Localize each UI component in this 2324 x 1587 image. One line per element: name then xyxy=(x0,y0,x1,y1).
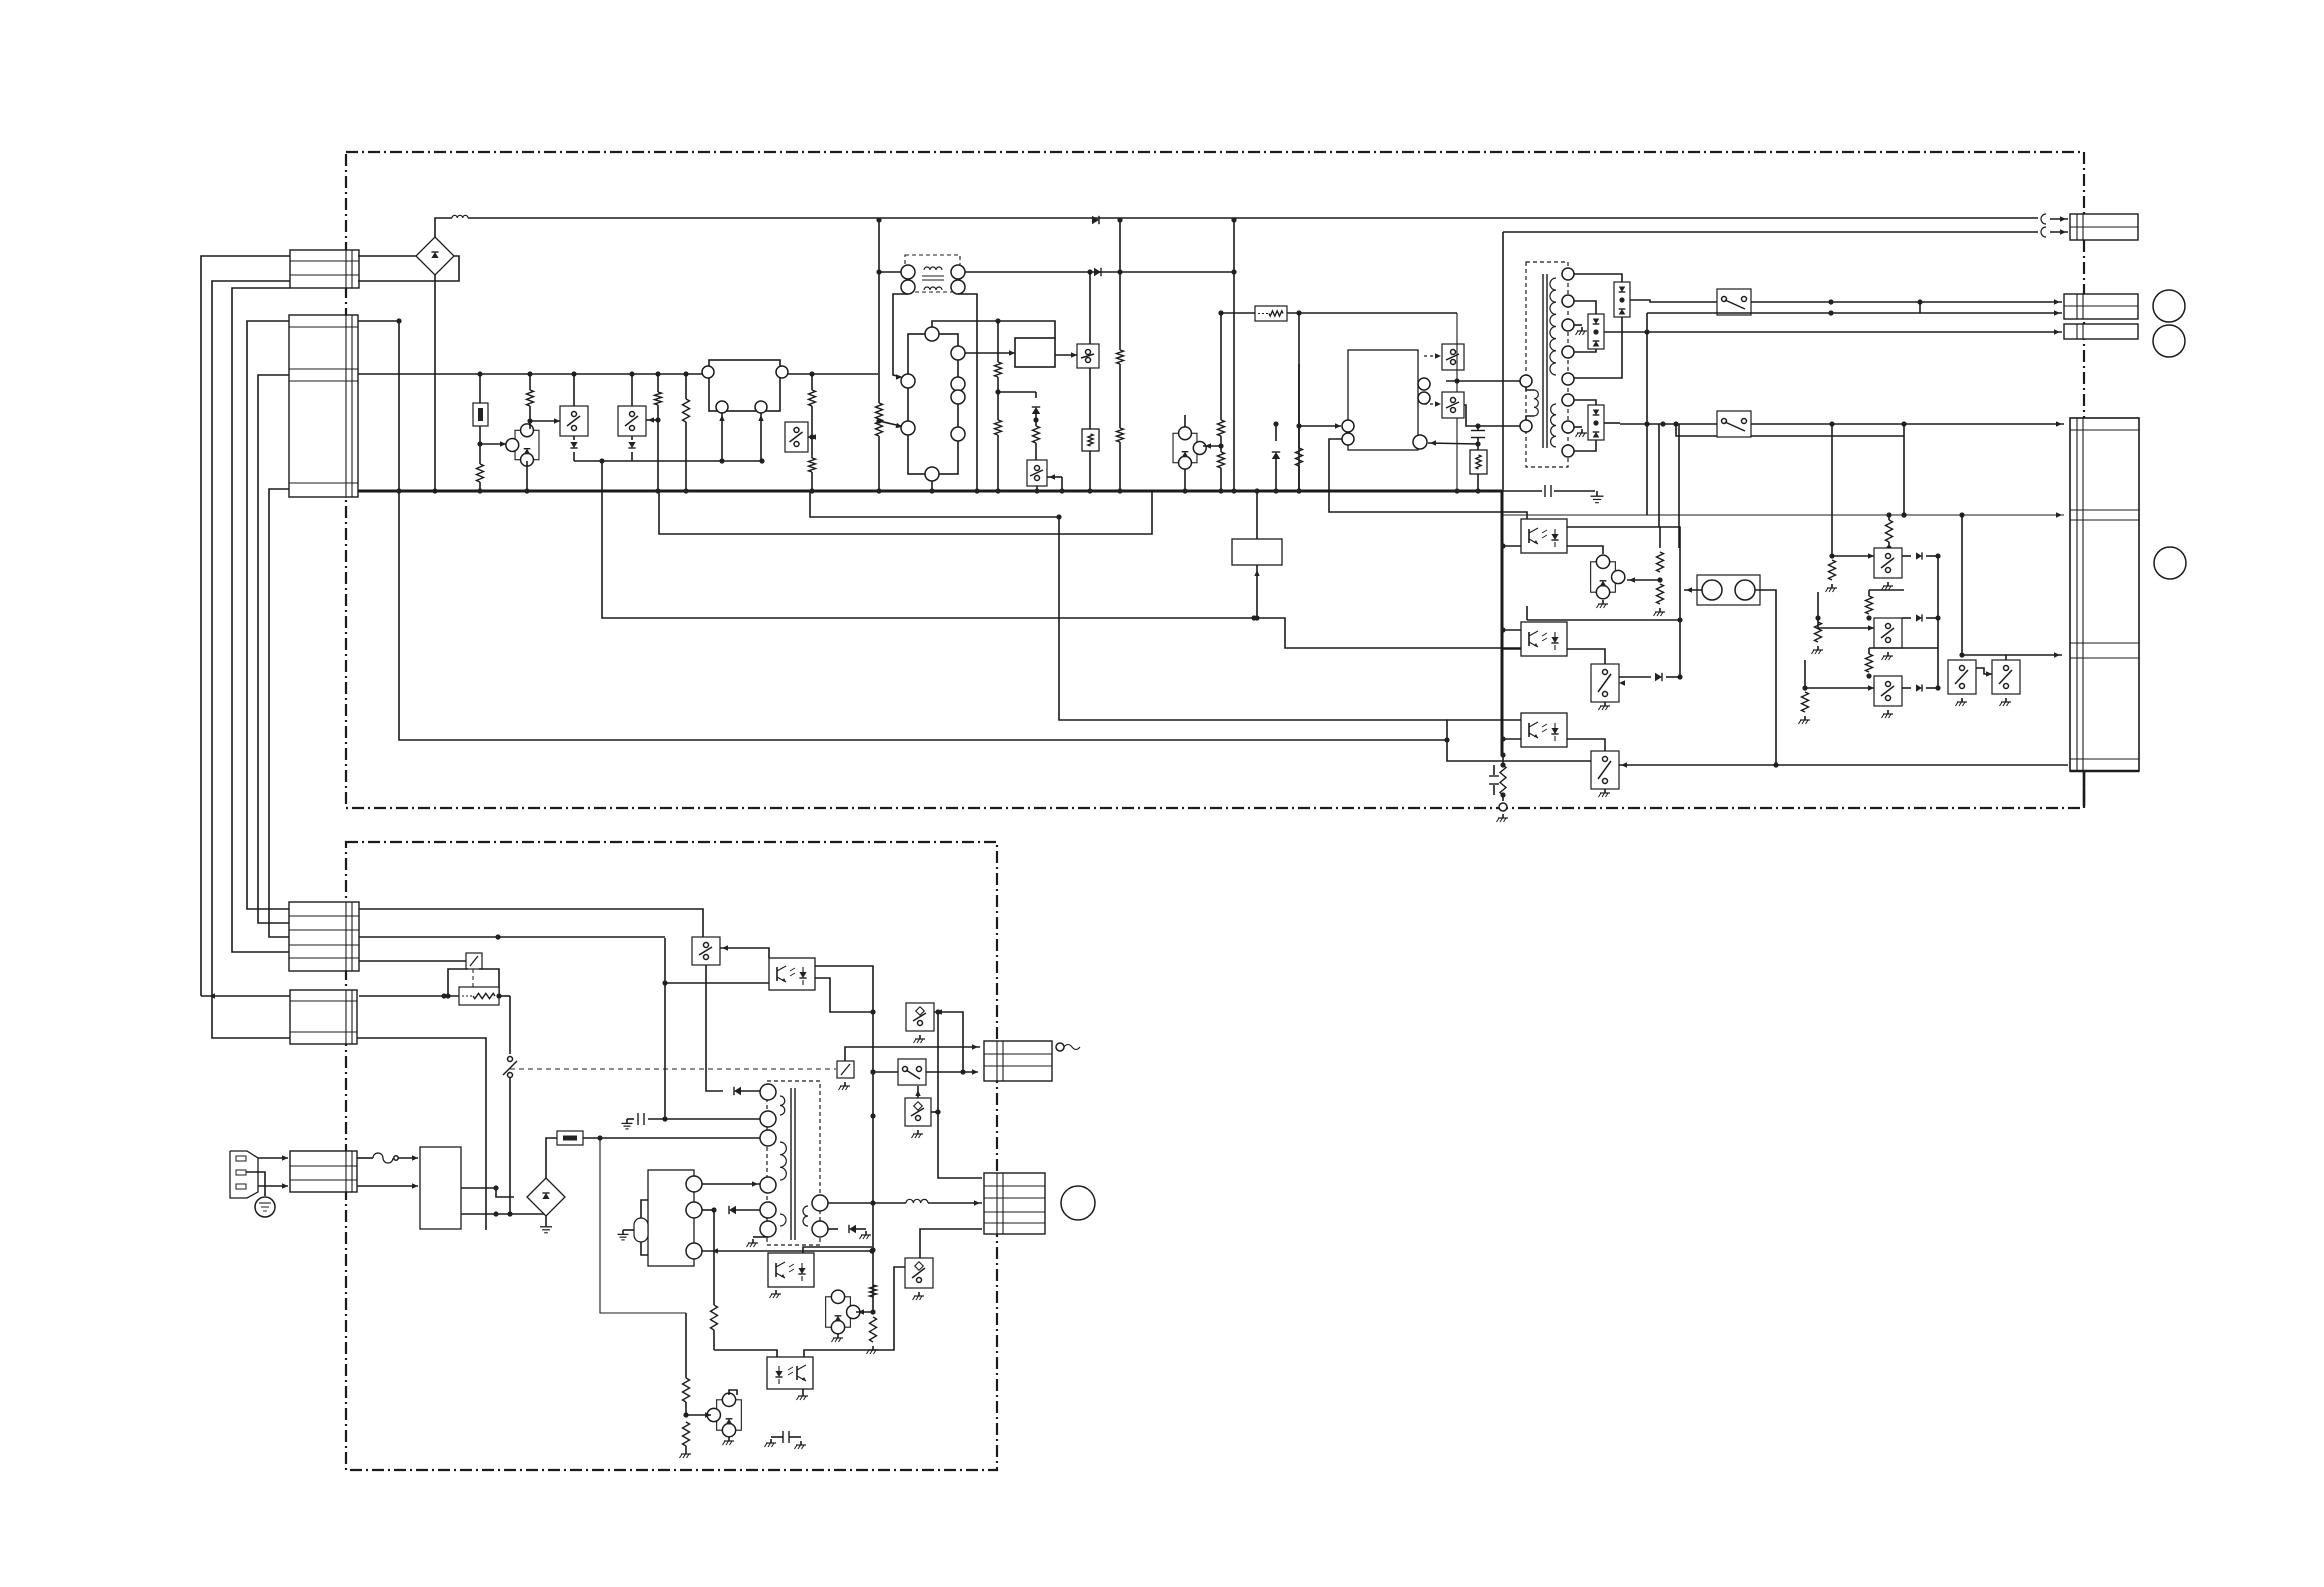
shunt regulator U_Z5 xyxy=(707,1393,741,1437)
T2 primary windings xyxy=(780,1096,786,1226)
connector CN_G2 xyxy=(984,1173,1045,1234)
wire PC5 right up xyxy=(804,1267,905,1357)
switch S4 xyxy=(905,1258,933,1288)
IC U1 pin circles xyxy=(702,366,788,413)
resistor chain R4 xyxy=(1567,527,1665,616)
arrow into Q3b xyxy=(1047,474,1065,493)
T1 primary pins xyxy=(1520,375,1532,432)
wire D5a out to switch Q5 xyxy=(1630,300,1717,302)
switch Q4a (upper FET) xyxy=(1442,344,1464,370)
IC U2 (PFC controller) xyxy=(908,334,958,474)
wire L4 branch to opto3 xyxy=(1447,719,1521,721)
rail y=374 from connector B xyxy=(358,371,878,376)
wire PC4 right loop xyxy=(815,966,876,1312)
optocoupler PC6 (standby feedback) xyxy=(768,1253,814,1287)
cap C_y xyxy=(765,1431,807,1449)
hook ferrite bead 2 xyxy=(2041,227,2046,237)
diode pack D5a xyxy=(1614,282,1630,317)
choke right bottom riser xyxy=(958,294,980,494)
U4 pill wires xyxy=(641,1200,648,1255)
optocoupler PC5 xyxy=(767,1357,813,1389)
switch S2 xyxy=(898,1059,926,1085)
wire T1 pin6 to D5c xyxy=(1574,400,1596,405)
wire J1 right down xyxy=(1755,590,1776,765)
IC U1 (standby control) xyxy=(709,360,780,411)
ground Q6b xyxy=(1599,789,1611,797)
vertical x=1221 chain xyxy=(1218,310,1225,493)
wire U4 pin3 xyxy=(702,1248,875,1253)
U4 pill cap xyxy=(634,1218,648,1242)
wire T1 pin1 to D5a xyxy=(1574,274,1622,282)
arrow to U_Z5 xyxy=(686,1412,711,1417)
optocoupler PC1 xyxy=(1521,519,1567,553)
optocoupler PC2 xyxy=(1521,622,1567,656)
arrow into Q2 right xyxy=(808,434,816,439)
thick vertical bus x=1502 xyxy=(1501,491,1504,755)
strain relief G1 xyxy=(1056,1043,1080,1051)
vertical x=1962 xyxy=(1959,515,1964,658)
switch Q3 (PFC FET) xyxy=(1077,344,1099,368)
wire y=515 bus xyxy=(1502,512,2064,517)
wire cap to ground xyxy=(1554,490,1595,492)
wire S2 out xyxy=(926,1069,978,1074)
T2 primary pins xyxy=(760,1084,776,1237)
wire cap to T2 pin2 xyxy=(665,1118,761,1120)
wire x1805 to Q7c xyxy=(1805,685,1874,690)
wire bundle left vertical 4 xyxy=(258,375,289,923)
T1 primary winding xyxy=(1534,390,1538,416)
diode D7 xyxy=(734,1087,761,1095)
choke pins xyxy=(901,265,965,294)
wire y=620 opto2 top xyxy=(1527,606,1680,620)
wire PC3 left pins xyxy=(1500,736,1521,741)
diode D6a xyxy=(1902,552,1941,559)
pulse jumper J1 xyxy=(1697,575,1760,605)
vertical x=1832 xyxy=(1826,424,1838,592)
wire FR2 path xyxy=(359,993,459,998)
wire bundle left vertical 2 xyxy=(212,281,290,1038)
wire Q8b up to out xyxy=(2006,652,2062,660)
switch Q8b xyxy=(1992,660,2020,706)
connector CN_D (5 rows) xyxy=(289,902,359,971)
wire PC2 to Q6a xyxy=(1567,649,1605,664)
indicator circle 2 xyxy=(2153,325,2185,357)
wire Q6a diode xyxy=(1619,673,1680,686)
IC U4 (standby controller) xyxy=(648,1170,694,1266)
wire U_Z5 top to PC5 xyxy=(729,1390,737,1395)
switch Q5 xyxy=(1717,289,1751,315)
T1 secondary pins xyxy=(1562,268,1574,457)
switch Q7c xyxy=(1874,676,1902,718)
T2 secondary winding xyxy=(803,1206,808,1226)
connector CN_OUT1 xyxy=(2070,214,2138,240)
fusible resistor FR1 xyxy=(473,374,488,464)
wire L5 to feedback node xyxy=(358,318,1447,740)
ground DB2 xyxy=(540,1216,552,1233)
shunt regulator U_Z1 xyxy=(506,424,539,466)
vertical x=600 down xyxy=(600,1138,686,1313)
driver block U2b xyxy=(1015,338,1055,367)
wire y=313 row xyxy=(1221,310,1457,315)
resistor R2a hang xyxy=(683,374,690,494)
wire PC1 left pins xyxy=(1500,543,1521,548)
choke left top wire xyxy=(879,271,901,273)
arrow S2 to S3 xyxy=(915,1086,920,1098)
relay RL2 dashed to FR2 xyxy=(472,969,474,988)
wire y=765 to CN_BIG xyxy=(1619,762,2068,767)
T1 ground stub pin3 xyxy=(1574,325,1587,335)
wire into S2 xyxy=(870,1069,898,1074)
diode pack D5c xyxy=(1588,405,1604,440)
connector CN_F (3 rows) xyxy=(290,1151,357,1192)
connector CN_E (2 rows) xyxy=(290,990,357,1044)
fusible resistor FR3 xyxy=(557,1131,583,1145)
ground S5 xyxy=(914,1035,926,1043)
wire CN_E row2 down xyxy=(357,1038,486,1230)
snubber chain x=1478 xyxy=(1470,426,1487,494)
connector CN_B (main, 5 bands) xyxy=(289,315,358,497)
wire L1 below bus xyxy=(810,491,1059,517)
wire T1 pin2 to D5b xyxy=(1574,301,1596,314)
switch Q7b xyxy=(1874,618,1902,660)
IC U3 pins xyxy=(1342,378,1430,449)
arrow to shunt reg U_Z1 xyxy=(480,441,506,446)
connector CN_BIG (multi) xyxy=(2070,418,2139,771)
T2 sec low diode xyxy=(828,1225,871,1239)
wire R5a into Q7a xyxy=(1888,542,1890,548)
earth wire xyxy=(246,1172,265,1196)
optocoupler PC3 xyxy=(1521,713,1567,747)
T1 primary connect xyxy=(1526,387,1534,420)
switch S3 xyxy=(905,1098,931,1126)
IC U2 pins xyxy=(901,327,965,481)
cap res combo C_R bottom xyxy=(1489,752,1506,801)
wire PC3 to Q6b xyxy=(1567,739,1605,751)
indicator circle 4 xyxy=(1061,1186,1095,1220)
wire U2 bottom to bus xyxy=(929,481,934,494)
ground U_Z5 xyxy=(723,1437,735,1445)
switch Q1b riser xyxy=(631,374,633,406)
diode D2b on wire 272 xyxy=(1094,268,1101,276)
wire CN_F row3 to filter xyxy=(357,1183,418,1188)
switch S1 xyxy=(692,937,720,965)
connector CN_A (AC relay out, 3 rows) xyxy=(290,250,359,288)
switch Q2 xyxy=(785,422,808,452)
hook ferrite bead 1 xyxy=(2041,214,2046,224)
wire CN_G2 to S4 xyxy=(920,1229,982,1258)
resistor R5b xyxy=(1866,590,1873,621)
indicator circle 3 xyxy=(2154,547,2186,579)
resistor chain x=998 xyxy=(995,321,1002,494)
vertical x=1818 xyxy=(1812,592,1824,654)
wire y=655 cross xyxy=(1962,654,2006,656)
wire inlet to CN_F row3 xyxy=(258,1183,288,1188)
vertical x=1938 xyxy=(1937,556,1939,688)
resistor R6a on x=873 xyxy=(870,1285,877,1297)
wire S5 right xyxy=(934,1009,966,1074)
wire U4 pin1 to T2 xyxy=(702,1181,760,1186)
protective earth symbol xyxy=(255,1197,275,1217)
vertical x=1299 with resistor xyxy=(1296,313,1303,494)
fusible resistor FR2 xyxy=(459,987,499,1005)
ground PC6 xyxy=(770,1290,782,1298)
wire D5c out xyxy=(1604,422,1620,424)
vertical x=938 xyxy=(935,1009,982,1178)
IC U4 pins xyxy=(686,1176,702,1259)
bus extension to cap xyxy=(1502,490,1542,492)
thick line under CN_BIG xyxy=(2070,770,2139,773)
switch Q1a xyxy=(560,406,588,436)
vertical x=1659 down xyxy=(1658,424,1660,527)
switch S5 xyxy=(906,1003,934,1031)
T1 core xyxy=(1543,274,1547,448)
diode D4 up xyxy=(1272,421,1280,493)
shunt regulator U_Z3 xyxy=(1591,555,1625,599)
vertical x=812 xyxy=(809,374,816,494)
ground U_Z3 xyxy=(1597,600,1609,608)
bus y=232 from transformer snubber xyxy=(1503,232,2038,491)
switch Q3b xyxy=(1027,460,1047,486)
dash-dot border of AC input board block (bottom) xyxy=(346,842,997,1470)
T2 core xyxy=(791,1088,795,1240)
node circle on border xyxy=(1499,803,1507,811)
shunt regulator U_Z2 xyxy=(1173,427,1206,469)
switch Q6a xyxy=(1591,664,1619,702)
wire PC4 lower loop xyxy=(815,978,876,1015)
wire y=332 to CN_OUT2 row3 xyxy=(1604,329,2062,334)
optocoupler PC4 xyxy=(769,958,815,990)
main power path vertical xyxy=(503,996,517,1217)
wire y=272 row xyxy=(965,269,1234,274)
diode D6b xyxy=(1902,614,1941,621)
top bus +B (y=218) xyxy=(468,217,2038,219)
shunt regulator U_Z4 xyxy=(826,1290,860,1334)
wire to T1 primary pin2 xyxy=(1464,405,1520,429)
wire bundle left vertical 1 xyxy=(201,256,290,996)
IC U1 bottom risers xyxy=(719,413,763,461)
T1 ground stub pin7 xyxy=(1574,427,1587,437)
vertical x=1805 xyxy=(1799,660,1811,724)
wire to T1 primary pin1 xyxy=(1446,380,1520,382)
wire y=983 to opto PC4 xyxy=(665,982,769,984)
wire into CN_OUT1 row1 with arrow xyxy=(2050,216,2068,221)
arrow into U_Z2 xyxy=(1203,443,1221,448)
bridge rectifier DB1 xyxy=(416,237,454,275)
wire RL3 to CN_G1 xyxy=(845,1044,980,1061)
diode D1b xyxy=(628,436,635,461)
wire D5b bottom to pin4 xyxy=(1574,349,1596,352)
wire relay bottom arrow xyxy=(1254,565,1259,621)
vertical x=665 xyxy=(662,938,667,1122)
line filter FL1 xyxy=(420,1147,461,1229)
resistor R1a chain xyxy=(527,374,534,429)
resistor R5c xyxy=(1866,648,1873,679)
T1 secondary winding lower xyxy=(1551,404,1556,447)
wire into S1 right xyxy=(720,945,769,958)
IC U3 (main switching regulator) xyxy=(1348,350,1418,450)
wire U2 left pin arrow xyxy=(879,421,902,428)
ground RL3 xyxy=(839,1082,851,1090)
wire bundle left vertical 3 xyxy=(247,321,289,909)
dash-dot border of main power board block (top) xyxy=(346,152,2084,808)
wire PC1 loop right xyxy=(1660,527,1680,548)
vertical x=714 down xyxy=(711,1210,718,1350)
ground at bus end xyxy=(1591,491,1604,503)
vertical x=1679 down xyxy=(1678,424,1680,548)
wire U3 pin2 to opto PC1 xyxy=(1329,439,1527,519)
filter out lower xyxy=(461,1211,546,1216)
wire J1 left arrow xyxy=(1684,587,1702,592)
diode D6c xyxy=(1902,684,1941,691)
wire bundle left vertical 6 xyxy=(232,288,290,952)
wire riser 1869 xyxy=(1869,590,1938,648)
diode pack D5b xyxy=(1588,314,1604,349)
switch Q8a xyxy=(1948,660,1976,706)
filter out to bridge xyxy=(461,1185,514,1197)
choke core xyxy=(922,267,944,290)
T2 secondary pins xyxy=(812,1195,828,1237)
wire inlet to CN_F row1 xyxy=(258,1155,288,1160)
wire U4 pin2 diode xyxy=(702,1206,760,1214)
wire x1832 to Q7a xyxy=(1832,553,1874,558)
resistor R5a xyxy=(1886,515,1893,551)
relay RL1 box xyxy=(1232,539,1282,565)
thick wire CN_BIG to border xyxy=(2083,771,2086,806)
ground Q6a xyxy=(1599,702,1611,710)
vertical x=686 res chain xyxy=(680,1313,692,1458)
wire Q3b to bus xyxy=(1034,486,1039,494)
wire L4 feedback staircase xyxy=(1056,514,1591,761)
arrow R4 to U_Z3 xyxy=(1627,577,1660,582)
wire Q8a to Q8b xyxy=(1976,668,1992,677)
wire D5a bottom to pin5 xyxy=(1574,317,1622,378)
wire U_Z1 bottom to bus xyxy=(524,461,529,494)
wire PC6 LED to node xyxy=(803,1247,872,1253)
tall vertical x=1234 xyxy=(1231,217,1236,493)
wire bridge right vertex to connector A row2 xyxy=(358,256,459,281)
vertical x=879 with resistors xyxy=(876,217,883,493)
connector CN_G1 xyxy=(984,1041,1052,1081)
arrow into U_Z4 xyxy=(856,1309,876,1314)
wire y=1350 xyxy=(714,1350,777,1357)
FET drain line x=1457 xyxy=(1454,313,1459,494)
switch Q6b xyxy=(1591,751,1619,789)
wire to diode D3 xyxy=(998,391,1036,393)
inductor L2 xyxy=(906,1199,928,1203)
relay RL3 xyxy=(837,1061,854,1078)
switch Q4b (lower FET) xyxy=(1442,392,1464,418)
wire y=313 to CN_OUT2 row2 xyxy=(1647,310,2062,332)
ground below border xyxy=(1497,814,1509,822)
inductor L1 on top bus xyxy=(452,215,468,218)
wire CN_OUT2 link vertical xyxy=(1919,302,1921,313)
wire bridge bottom to bus xyxy=(432,275,437,494)
wire connector A row1 to bridge xyxy=(358,255,416,257)
ground U_Z4 xyxy=(832,1334,844,1342)
wire into U3 pin1 xyxy=(1299,423,1341,428)
vertical x=1680 xyxy=(1677,548,1682,680)
switch Q1a riser xyxy=(573,374,575,406)
diode D3 chain xyxy=(1032,392,1040,460)
U2 top pin loop xyxy=(932,318,1055,338)
choke left bottom wire xyxy=(893,294,908,380)
wire U2 pin to driver xyxy=(965,350,1015,355)
relay RL2 xyxy=(466,953,482,969)
HV DC rail to T2 xyxy=(583,1135,766,1140)
relay RL2 bypass wires xyxy=(445,969,499,999)
wire into U3 right pin xyxy=(1428,440,1478,445)
wire driver to switch Q3 xyxy=(1055,352,1077,357)
wire CN_D row1 to S1 xyxy=(359,909,703,937)
vertical x=1120 chain xyxy=(1117,217,1124,493)
ground S4 xyxy=(913,1292,925,1300)
arrow into Q1a xyxy=(530,418,560,423)
wire S1 bottom to T2 diode xyxy=(706,965,723,1091)
wire into CN_OUT1 row2 with arrow xyxy=(2050,229,2068,234)
cap C_t2 xyxy=(622,1113,666,1129)
dashed gate drives xyxy=(1424,353,1441,406)
diode D1a xyxy=(570,436,577,461)
U4 pill ground xyxy=(618,1230,635,1240)
wire D5c bottom to pin8 xyxy=(1574,440,1596,451)
arrow into Q1b right xyxy=(646,417,658,422)
vertical x=1299 to row wire xyxy=(1296,364,1301,494)
boxed resistor R_f1 xyxy=(1255,306,1287,321)
switch Q7a xyxy=(1874,548,1902,590)
AC inlet plug xyxy=(230,1151,258,1198)
fuse F1 xyxy=(357,1153,418,1163)
wire bridge top to top bus xyxy=(435,218,452,237)
vertical x=1090 chain xyxy=(1082,272,1099,494)
wire y=424 to CN_BIG row1 xyxy=(1620,421,2064,426)
wire U_Z2 to bus xyxy=(1182,415,1187,494)
wire CN_D row3 to relay RL2 xyxy=(359,960,466,962)
wire PC2 left pins xyxy=(1500,627,1521,649)
wire Q5b feed xyxy=(1676,424,1907,518)
ground PC5 xyxy=(797,1389,809,1400)
indicator circle 1 xyxy=(2153,290,2185,322)
wire FR2 out xyxy=(496,993,510,998)
wire into connector E row1 with arrow xyxy=(201,993,290,998)
wire L2 below bus xyxy=(659,491,1152,534)
wire L3 to relay and opto2 xyxy=(602,462,1521,648)
T1 secondary winding upper xyxy=(1550,278,1556,375)
capacitor C_bus on bus end xyxy=(1545,485,1551,497)
dashed standby line xyxy=(510,1068,836,1070)
common-mode choke T_cm dashed box xyxy=(905,255,960,292)
connector CN_OUT2 xyxy=(2064,294,2138,319)
main HV- bus (thick) xyxy=(358,490,1502,493)
wire into S3 right xyxy=(931,1109,941,1114)
wire Q5 to CN_OUT2 row1 xyxy=(1751,299,2062,304)
standby transformer T2 dashed box xyxy=(767,1081,820,1245)
wire relay to bus xyxy=(1254,488,1259,539)
connector CN_OUT3 xyxy=(2064,324,2138,339)
wire bundle left vertical 5 xyxy=(269,489,289,937)
bridge rectifier DB2 xyxy=(527,1178,565,1216)
switch Q1b xyxy=(618,406,646,436)
ground S3 xyxy=(912,1130,924,1138)
wire CN_D row2 xyxy=(359,934,665,939)
wire PC1 right to shunt xyxy=(1567,546,1603,554)
wire x1818 to Q7b xyxy=(1818,618,1874,631)
T2 left ground xyxy=(747,1237,769,1247)
resistor chain x=658 xyxy=(655,374,662,494)
wire L2 to CN_G2 xyxy=(928,1200,982,1205)
diode D2a on top bus xyxy=(1092,216,1099,224)
resistor R1b xyxy=(477,464,484,494)
main transformer T1 dashed box xyxy=(1526,262,1568,467)
